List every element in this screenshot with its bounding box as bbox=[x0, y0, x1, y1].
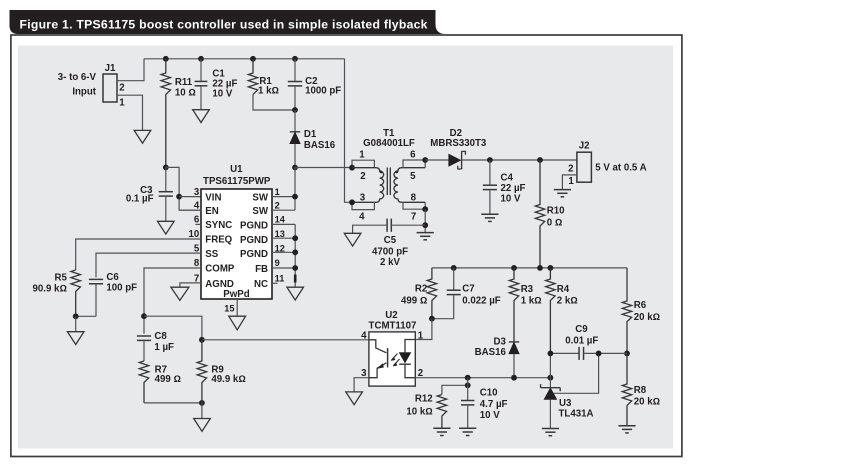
capacitor C2 bbox=[294, 59, 296, 82]
ground at T1 secondary bbox=[417, 232, 434, 234]
resistor R8 bbox=[622, 353, 631, 425]
node T1 pin3/4 bbox=[349, 199, 355, 205]
wire output line bbox=[490, 159, 577, 161]
svg-text:2 kV: 2 kV bbox=[380, 257, 400, 268]
svg-text:G084001LF: G084001LF bbox=[363, 138, 415, 149]
svg-text:MBRS330T3: MBRS330T3 bbox=[430, 138, 487, 149]
connector J2 bbox=[577, 152, 592, 182]
svg-text:R5: R5 bbox=[55, 273, 68, 284]
T1 secondary phase dot bbox=[395, 171, 398, 174]
ground at C1 bbox=[193, 110, 210, 123]
svg-text:1: 1 bbox=[275, 187, 280, 197]
T1 primary phase dot bbox=[380, 171, 383, 174]
svg-text:U2: U2 bbox=[385, 310, 397, 321]
wire AGND stub pin 7 bbox=[180, 283, 201, 287]
node C10 top bbox=[465, 375, 471, 381]
ground at J1 pin1 bbox=[134, 130, 151, 143]
resistor R7 bbox=[139, 361, 148, 403]
wire R1 bottom to C2 bottom bbox=[253, 95, 295, 111]
svg-text:0.1 µF: 0.1 µF bbox=[126, 193, 154, 204]
svg-text:22 µF: 22 µF bbox=[501, 183, 526, 194]
svg-text:VIN: VIN bbox=[205, 192, 221, 203]
svg-text:C4: C4 bbox=[501, 172, 514, 183]
svg-text:10 kΩ: 10 kΩ bbox=[406, 406, 432, 417]
svg-text:Input: Input bbox=[72, 86, 96, 97]
transformer T1 secondary bottom pins 8-7 bbox=[403, 202, 425, 209]
wire PGND/FB bus bbox=[272, 224, 295, 287]
svg-text:1 kΩ: 1 kΩ bbox=[258, 86, 279, 97]
capacitor C6 bbox=[89, 278, 103, 280]
node PGND12 bbox=[292, 249, 298, 255]
svg-text:9: 9 bbox=[275, 258, 280, 268]
svg-text:0.01 µF: 0.01 µF bbox=[565, 336, 598, 347]
svg-text:3: 3 bbox=[360, 193, 366, 204]
resistor R6 bbox=[622, 268, 631, 354]
svg-text:R6: R6 bbox=[634, 300, 647, 311]
transformer T1 secondary winding bbox=[394, 168, 425, 203]
ground at C5 primary side bbox=[344, 233, 361, 246]
svg-text:2: 2 bbox=[119, 83, 124, 94]
wire input top rail bbox=[144, 58, 345, 60]
ground at R7/R9 bbox=[194, 419, 211, 432]
resistor R10 bbox=[535, 160, 544, 268]
wire T1 pin7 to ground bbox=[424, 209, 426, 232]
wire COMP line bbox=[144, 268, 201, 334]
node C4 junction bbox=[487, 157, 493, 163]
svg-text:TL431A: TL431A bbox=[559, 409, 594, 420]
svg-text:10 V: 10 V bbox=[501, 193, 521, 204]
node R5-C6 junction bbox=[73, 313, 79, 319]
node SW pin1 junction bbox=[292, 194, 298, 200]
svg-text:R10: R10 bbox=[547, 206, 565, 217]
svg-text:R3: R3 bbox=[521, 284, 534, 295]
node rail-C2 bbox=[292, 56, 298, 62]
svg-text:3: 3 bbox=[194, 187, 200, 198]
figure frame bbox=[11, 35, 682, 457]
svg-text:SW: SW bbox=[252, 193, 268, 204]
connector J1 bbox=[103, 74, 117, 102]
wire opto pin3 to ground bbox=[354, 378, 369, 392]
wire opto emitter line pin2 bbox=[415, 377, 550, 379]
wire opto pin1 riser bbox=[415, 319, 432, 340]
node FB bbox=[292, 265, 298, 271]
wire C6 bottom to R5 bottom bbox=[76, 315, 96, 317]
wire SYNC stub pin 6 bbox=[195, 223, 201, 225]
svg-text:R2: R2 bbox=[415, 284, 427, 295]
node rail-C7 bbox=[451, 265, 457, 271]
resistor R11 bbox=[161, 59, 170, 168]
svg-text:J1: J1 bbox=[105, 63, 116, 74]
wire EN stub pin 4 bbox=[179, 209, 201, 211]
wire U3 ref to C9 right bbox=[553, 353, 598, 393]
svg-text:1 µF: 1 µF bbox=[154, 342, 174, 353]
ground at U3 bbox=[542, 428, 559, 430]
ground at PGND/FB bbox=[287, 287, 304, 300]
node R2/C7 junction bbox=[429, 316, 435, 322]
svg-text:1000 pF: 1000 pF bbox=[305, 86, 341, 97]
svg-text:FB: FB bbox=[255, 264, 268, 275]
resistor R5 bbox=[71, 270, 80, 316]
transformer T1 primary bottom pins 3-4 bbox=[352, 202, 374, 209]
svg-text:499 Ω: 499 Ω bbox=[401, 295, 427, 306]
node T1 pin6 bbox=[422, 157, 428, 163]
wire PwPd pin 15 stub bbox=[236, 299, 238, 316]
wire rail to R6 bbox=[626, 268, 628, 299]
wire to ground R7/R9 bbox=[201, 403, 203, 419]
diode D2 bbox=[425, 159, 449, 161]
svg-text:14: 14 bbox=[275, 215, 286, 225]
ground at AGND bbox=[171, 287, 189, 300]
svg-text:1: 1 bbox=[119, 98, 125, 109]
wire NC stub pin 11 bbox=[272, 282, 278, 284]
svg-text:U1: U1 bbox=[230, 164, 243, 175]
node rail-R3 bbox=[511, 265, 517, 271]
node R10 top junction bbox=[537, 157, 543, 163]
svg-text:R8: R8 bbox=[634, 385, 647, 396]
svg-text:15: 15 bbox=[224, 304, 234, 314]
node rail-R10 bbox=[537, 265, 543, 271]
node C5 right junction bbox=[422, 222, 428, 228]
svg-text:BAS16: BAS16 bbox=[304, 140, 336, 151]
svg-text:EN: EN bbox=[205, 206, 218, 217]
transformer T1 primary top pins 1-2 bbox=[352, 160, 374, 168]
node rail-R11 bbox=[163, 56, 169, 62]
svg-text:10 V: 10 V bbox=[480, 410, 500, 421]
U2 light arrows bbox=[391, 354, 399, 366]
svg-text:100 pF: 100 pF bbox=[106, 283, 137, 294]
capacitor C7 bbox=[453, 268, 455, 290]
node R7/R9 bottom junction bbox=[199, 400, 205, 406]
svg-text:3- to 6-V: 3- to 6-V bbox=[58, 72, 97, 83]
svg-text:8: 8 bbox=[411, 193, 417, 204]
ground at R8 bbox=[618, 425, 635, 427]
node T1 pin7 bbox=[422, 206, 428, 212]
node C9 left bbox=[548, 351, 554, 357]
svg-text:C9: C9 bbox=[575, 324, 588, 335]
diode D1 bbox=[294, 110, 296, 132]
svg-text:C7: C7 bbox=[462, 284, 474, 295]
node SW-D1 bbox=[292, 165, 298, 171]
node R6/R8 junction bbox=[624, 351, 630, 357]
node C9 ref branch bbox=[596, 351, 602, 357]
wire SW to T1 primary top bbox=[295, 167, 352, 169]
svg-text:1: 1 bbox=[418, 330, 424, 341]
svg-text:499 Ω: 499 Ω bbox=[155, 374, 181, 385]
svg-text:C5: C5 bbox=[384, 235, 397, 246]
node R9 top junction bbox=[199, 337, 205, 343]
svg-text:COMP: COMP bbox=[205, 264, 235, 275]
svg-text:10 V: 10 V bbox=[212, 88, 232, 99]
node snubber junction bbox=[292, 107, 298, 113]
svg-text:1: 1 bbox=[568, 176, 574, 187]
capacitor C10 bbox=[467, 378, 469, 401]
svg-text:PGND: PGND bbox=[240, 249, 268, 260]
svg-text:4.7 µF: 4.7 µF bbox=[480, 399, 508, 410]
resistor R2 bbox=[427, 268, 436, 319]
node rail-R1 bbox=[250, 56, 256, 62]
ground at J2 bbox=[554, 189, 571, 191]
node D3 anode bbox=[511, 375, 517, 381]
svg-text:FREQ: FREQ bbox=[205, 235, 232, 246]
svg-text:0 Ω: 0 Ω bbox=[547, 217, 563, 228]
node VIN pin junction bbox=[176, 194, 182, 200]
ground at PwPd bbox=[229, 316, 246, 330]
wire opto collector line bbox=[202, 339, 369, 341]
svg-text:6: 6 bbox=[410, 150, 416, 161]
node PGND13 bbox=[292, 235, 298, 241]
svg-text:PwPd: PwPd bbox=[223, 289, 249, 300]
svg-text:11: 11 bbox=[275, 274, 285, 284]
optocoupler U2 box bbox=[369, 332, 415, 386]
diode D3 bbox=[509, 341, 519, 343]
wire C7 bottom to R2 bbox=[432, 295, 454, 319]
transformer T1 primary winding bbox=[352, 168, 384, 203]
resistor R3 bbox=[509, 268, 518, 342]
svg-text:10 Ω: 10 Ω bbox=[175, 87, 196, 98]
ground at opto pin3 bbox=[346, 392, 363, 405]
svg-text:C10: C10 bbox=[480, 387, 498, 398]
ground at R12 bbox=[433, 427, 450, 429]
ground at C10 bbox=[459, 427, 476, 429]
transformer T1 secondary top pins 6-5 bbox=[403, 160, 425, 168]
svg-text:NC: NC bbox=[254, 279, 268, 290]
U2 phototransistor bbox=[369, 340, 387, 353]
svg-text:2: 2 bbox=[360, 171, 365, 182]
svg-text:R4: R4 bbox=[557, 284, 570, 295]
svg-text:D1: D1 bbox=[304, 129, 317, 140]
svg-text:20 kΩ: 20 kΩ bbox=[634, 312, 660, 323]
node U3 cathode line bbox=[548, 375, 554, 381]
wire FREQ to R5 bbox=[76, 239, 201, 270]
node T1 pin1/2 bbox=[349, 165, 355, 171]
capacitor C3 bbox=[165, 167, 167, 191]
wire SS to C6 bbox=[96, 253, 201, 277]
svg-text:1: 1 bbox=[359, 150, 365, 161]
svg-text:BAS16: BAS16 bbox=[475, 347, 507, 358]
svg-text:4: 4 bbox=[359, 211, 365, 222]
svg-text:1 kΩ: 1 kΩ bbox=[521, 296, 542, 307]
svg-text:2: 2 bbox=[275, 200, 280, 210]
svg-text:TPS61175PWP: TPS61175PWP bbox=[203, 176, 271, 187]
node Vin bbox=[163, 165, 169, 171]
node rail-R4 bbox=[548, 265, 554, 271]
resistor R1 bbox=[248, 59, 257, 95]
svg-text:SYNC: SYNC bbox=[205, 220, 232, 231]
svg-text:2 kΩ: 2 kΩ bbox=[557, 296, 578, 307]
svg-text:C8: C8 bbox=[154, 331, 167, 342]
node rail-C1 bbox=[198, 56, 204, 62]
wire R7 bottom to R9 bottom bbox=[144, 402, 202, 404]
svg-text:Figure 1. TPS61175 boost contr: Figure 1. TPS61175 boost controller used… bbox=[20, 18, 428, 32]
U2 LED bbox=[405, 340, 415, 353]
capacitor C1 bbox=[200, 59, 202, 82]
svg-text:4700 pF: 4700 pF bbox=[372, 246, 408, 257]
ground at C3 bbox=[158, 221, 175, 234]
wire feedback rail bbox=[432, 267, 627, 269]
wire VIN pin stub bbox=[179, 196, 201, 198]
transformer T1 core bbox=[387, 168, 390, 196]
wire primary bus down bbox=[345, 59, 353, 203]
title bar bbox=[10, 10, 446, 34]
svg-text:U3: U3 bbox=[559, 398, 572, 409]
ground at C4 bbox=[481, 213, 498, 215]
svg-text:TCMT1107: TCMT1107 bbox=[369, 321, 417, 332]
resistor R12 bbox=[437, 395, 446, 429]
svg-text:SS: SS bbox=[205, 249, 218, 260]
svg-text:5 V at 0.5 A: 5 V at 0.5 A bbox=[595, 163, 646, 174]
svg-text:R12: R12 bbox=[415, 394, 433, 405]
svg-text:SW: SW bbox=[252, 206, 268, 217]
svg-text:D3: D3 bbox=[494, 337, 507, 348]
svg-text:C6: C6 bbox=[106, 272, 119, 283]
wire J1 pin2 to rail bbox=[117, 59, 144, 81]
svg-text:J2: J2 bbox=[579, 140, 590, 151]
op-amp U1 box bbox=[201, 189, 272, 299]
node COMP branch bbox=[141, 313, 147, 319]
U1 FB-ground heavy segment bbox=[294, 275, 297, 283]
ground at R5/C6 bbox=[67, 332, 84, 345]
capacitor C4 bbox=[489, 160, 491, 185]
capacitor C5 bbox=[386, 219, 388, 232]
node R12/C10 junction bbox=[465, 382, 471, 388]
wire SW pins to D1 anode bbox=[272, 168, 295, 211]
svg-text:4: 4 bbox=[361, 330, 367, 341]
resistor R9 bbox=[197, 340, 206, 403]
svg-text:PGND: PGND bbox=[240, 235, 268, 246]
wire COMP branch to R9 top bbox=[144, 316, 202, 340]
wire to ground R5/C6 bbox=[75, 316, 77, 331]
svg-text:7: 7 bbox=[411, 211, 416, 222]
resistor R4 bbox=[546, 268, 555, 353]
svg-text:5: 5 bbox=[410, 171, 416, 182]
svg-text:90.9 kΩ: 90.9 kΩ bbox=[33, 283, 67, 294]
wire Vin node to VIN/EN bbox=[166, 167, 201, 210]
shunt regulator U3 bbox=[549, 353, 551, 387]
schematic panel background bbox=[18, 46, 673, 449]
capacitor C9 bbox=[550, 352, 579, 354]
svg-text:2: 2 bbox=[568, 163, 573, 174]
svg-text:49.9 kΩ: 49.9 kΩ bbox=[211, 374, 245, 385]
svg-text:20 kΩ: 20 kΩ bbox=[634, 397, 660, 408]
wire J1 pin1 to ground bbox=[117, 95, 143, 130]
svg-text:PGND: PGND bbox=[240, 220, 268, 231]
svg-text:0.022 µF: 0.022 µF bbox=[462, 295, 501, 306]
wire J2 pin1 to ground bbox=[562, 175, 577, 190]
capacitor C8 bbox=[137, 335, 151, 337]
